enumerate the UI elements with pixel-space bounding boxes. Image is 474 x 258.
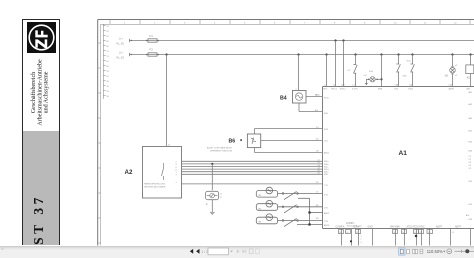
- svg-text:D01: D01: [469, 181, 474, 183]
- svg-text:E014: E014: [409, 88, 415, 90]
- svg-text:und Achssysteme: und Achssysteme: [44, 71, 50, 113]
- svg-text:1: 1: [361, 236, 362, 238]
- svg-text:27: 27: [356, 232, 358, 234]
- svg-text:ADPT: ADPT: [436, 226, 443, 229]
- svg-text:24: 24: [339, 232, 341, 234]
- svg-text:A16: A16: [315, 109, 318, 112]
- svg-text:B02: B02: [469, 142, 473, 144]
- svg-text:S08: S08: [324, 113, 328, 115]
- svg-text:95: 95: [107, 31, 110, 33]
- svg-text:51: 51: [393, 232, 395, 234]
- svg-text:WECHSEL AUTOMATIK: WECHSEL AUTOMATIK: [144, 186, 166, 189]
- svg-text:A03: A03: [469, 117, 473, 120]
- svg-text:3: 3: [176, 175, 178, 177]
- svg-text:MT2.1: MT2.1: [332, 88, 339, 90]
- svg-text:B03: B03: [469, 151, 473, 153]
- svg-text:DT2: DT2: [324, 208, 329, 210]
- svg-text:AN21: AN21: [324, 152, 330, 155]
- svg-text:(+): (+): [220, 196, 223, 198]
- svg-text:75: 75: [107, 51, 110, 53]
- svg-text:(+): (+): [119, 36, 123, 40]
- svg-text:C5: C5: [469, 168, 472, 170]
- svg-text:A0M1: A0M1: [449, 87, 455, 90]
- svg-text:ALERT CUSTOMER MODE: ALERT CUSTOMER MODE: [207, 147, 233, 150]
- svg-text:E0M: E0M: [378, 88, 382, 90]
- svg-text:12: 12: [414, 232, 416, 234]
- svg-text:MT2.2: MT2.2: [340, 88, 347, 90]
- svg-text:A7: A7: [206, 203, 208, 206]
- svg-text:A02: A02: [469, 103, 473, 106]
- svg-text:x2: x2: [455, 65, 458, 67]
- svg-text:90: 90: [107, 36, 110, 38]
- svg-text:x1: x1: [455, 75, 458, 77]
- svg-text:F2: F2: [150, 48, 154, 52]
- svg-text:2: 2: [361, 239, 362, 241]
- svg-text:G28: G28: [403, 75, 408, 77]
- svg-text:GND: GND: [368, 227, 373, 229]
- svg-text:KL15: KL15: [324, 97, 330, 99]
- svg-text:Geschäftsbereich: Geschäftsbereich: [30, 72, 37, 113]
- svg-text:A02: A02: [467, 87, 471, 90]
- svg-text:KL.15: KL.15: [117, 55, 125, 59]
- svg-text:(+): (+): [119, 50, 123, 54]
- svg-text:45: 45: [107, 81, 110, 83]
- svg-text:C0A: C0A: [395, 84, 400, 87]
- svg-text:AN23: AN23: [324, 224, 330, 227]
- svg-text:3: 3: [361, 242, 362, 244]
- svg-text:D03: D03: [469, 219, 474, 221]
- svg-text:E01: E01: [395, 88, 399, 90]
- svg-text:30: 30: [107, 96, 110, 98]
- svg-text:110.50%: 110.50%: [427, 248, 443, 253]
- svg-text:60: 60: [107, 66, 110, 68]
- svg-text:B3: B3: [259, 222, 262, 224]
- svg-text:65: 65: [107, 61, 110, 63]
- svg-text:C1: C1: [469, 156, 472, 158]
- svg-text:1: 1: [296, 89, 297, 91]
- svg-text:V1: V1: [220, 193, 222, 195]
- svg-text:S.01: S.01: [407, 61, 412, 63]
- svg-text:COMP.T: COMP.T: [353, 227, 362, 229]
- svg-text:CT1: CT1: [324, 185, 329, 187]
- svg-text:1.1: 1.1: [428, 232, 431, 234]
- svg-text:Arbeitsmaschinen-Antriebe: Arbeitsmaschinen-Antriebe: [37, 59, 43, 126]
- svg-text:B01: B01: [469, 131, 473, 133]
- svg-text:B4: B4: [280, 95, 287, 101]
- svg-text:S11f: S11f: [324, 174, 328, 176]
- svg-text:COMP.A: COMP.A: [336, 226, 345, 229]
- svg-text:55: 55: [107, 71, 110, 73]
- svg-text:ADPT: ADPT: [455, 226, 462, 229]
- svg-text:35: 35: [107, 91, 110, 93]
- svg-text:50: 50: [402, 232, 404, 234]
- svg-text:50: 50: [107, 76, 110, 78]
- svg-text:S.7: S.7: [348, 70, 352, 72]
- svg-text:B3: B3: [316, 218, 319, 220]
- svg-text:A1: A1: [399, 150, 408, 157]
- svg-text:85: 85: [107, 41, 110, 43]
- svg-text:ST 37: ST 37: [31, 194, 46, 245]
- svg-text:DIFFERENT FUNCTION: DIFFERENT FUNCTION: [210, 151, 233, 153]
- svg-text:70: 70: [107, 56, 110, 58]
- svg-text:COMP.L: COMP.L: [346, 223, 355, 225]
- svg-text:F1: F1: [150, 34, 154, 38]
- svg-text:x17: x17: [364, 75, 368, 77]
- svg-text:K2: K2: [467, 76, 471, 79]
- svg-text:DT3: DT3: [324, 221, 329, 223]
- svg-text:40: 40: [107, 86, 110, 88]
- svg-text:C3: C3: [469, 162, 472, 164]
- svg-text:KL.30: KL.30: [117, 41, 125, 45]
- svg-text:C4: C4: [469, 165, 472, 167]
- svg-text:7: 7: [176, 182, 178, 184]
- svg-text:H2: H2: [445, 75, 449, 78]
- svg-text:A2: A2: [125, 169, 133, 176]
- svg-text:S.01: S.01: [369, 71, 374, 73]
- svg-text:26: 26: [346, 232, 348, 234]
- svg-text:1 / 2: 1 / 2: [201, 250, 208, 254]
- svg-text:VHF HMI: VHF HMI: [390, 227, 400, 229]
- svg-text:C2: C2: [469, 159, 472, 161]
- svg-text:S.DT5: S.DT5: [352, 88, 359, 90]
- svg-text:HEBELVERSTELLUNG: HEBELVERSTELLUNG: [144, 184, 166, 186]
- svg-text:99: 99: [107, 26, 110, 28]
- svg-text:A05: A05: [466, 214, 469, 217]
- svg-text:24: 24: [452, 232, 454, 234]
- svg-text:B6: B6: [229, 139, 236, 145]
- svg-text:DT1: DT1: [324, 194, 329, 196]
- svg-text:AN22: AN22: [324, 212, 330, 215]
- svg-text:MT1: MT1: [324, 88, 329, 90]
- svg-text:A01: A01: [469, 91, 473, 94]
- svg-text:80: 80: [107, 46, 110, 48]
- svg-text:D02: D02: [469, 204, 474, 206]
- svg-text:AT22 AT23 SYNC: AT22 AT23 SYNC: [407, 226, 426, 229]
- svg-text:CL4: CL4: [324, 141, 329, 143]
- svg-text:CM: CM: [419, 232, 422, 234]
- svg-text:RC6: RC6: [324, 129, 329, 131]
- svg-text:C0V: C0V: [449, 85, 454, 87]
